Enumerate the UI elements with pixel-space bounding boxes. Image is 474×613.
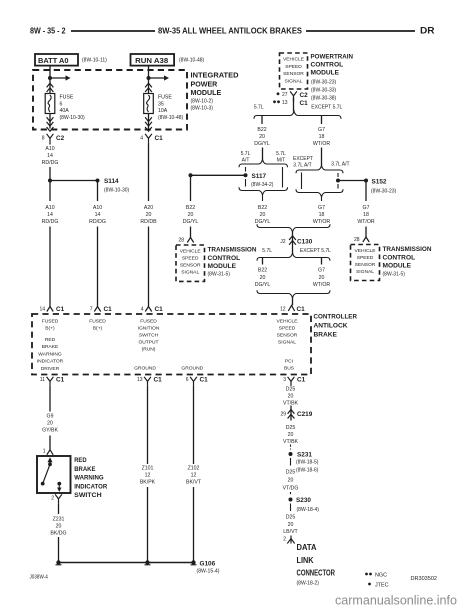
svg-text:B22: B22 (257, 127, 266, 133)
svg-text:20: 20 (188, 212, 194, 218)
svg-text:NGC: NGC (375, 572, 387, 578)
svg-text:PCI: PCI (285, 359, 293, 365)
svg-text:C1: C1 (104, 306, 113, 313)
svg-text:(RUN): (RUN) (142, 347, 156, 353)
svg-text:BATT A0: BATT A0 (38, 56, 69, 65)
svg-text:CONTROL: CONTROL (208, 255, 241, 262)
svg-text:5.7L: 5.7L (254, 105, 264, 111)
svg-text:FUSE: FUSE (60, 95, 74, 101)
svg-text:CONTROL: CONTROL (383, 254, 416, 261)
svg-text:SPEED: SPEED (285, 64, 302, 70)
svg-text:(8W-10-3): (8W-10-3) (191, 105, 214, 111)
svg-text:20: 20 (260, 275, 266, 281)
svg-text:VT/DG: VT/DG (283, 486, 299, 492)
svg-text:C1: C1 (155, 306, 164, 313)
svg-text:WT/OR: WT/OR (357, 219, 375, 225)
svg-text:A20: A20 (144, 205, 153, 211)
svg-text:6: 6 (60, 101, 63, 107)
svg-text:BK/DG: BK/DG (50, 531, 66, 537)
svg-text:14: 14 (95, 212, 101, 218)
svg-text:4: 4 (140, 136, 143, 142)
svg-text:VEHICLE: VEHICLE (355, 248, 377, 254)
svg-text:8W - 35 - 2: 8W - 35 - 2 (30, 26, 66, 36)
svg-text:RD/DG: RD/DG (42, 219, 59, 225)
svg-text:(8W-18-2): (8W-18-2) (297, 581, 320, 587)
svg-text:POWERTRAIN: POWERTRAIN (311, 54, 354, 61)
svg-text:DG/YL: DG/YL (255, 219, 271, 225)
svg-text:Z102: Z102 (188, 466, 200, 472)
svg-text:18: 18 (319, 134, 325, 140)
svg-text:20: 20 (56, 524, 62, 530)
svg-text:3.7L A/T: 3.7L A/T (293, 162, 311, 168)
svg-text:G7: G7 (318, 268, 325, 274)
svg-text:Z231: Z231 (53, 517, 65, 523)
svg-text:C1: C1 (297, 377, 306, 384)
svg-text:BUS: BUS (284, 366, 295, 372)
svg-text:FUSED: FUSED (140, 319, 157, 325)
svg-text:S230: S230 (296, 497, 311, 504)
svg-text:2: 2 (283, 537, 286, 543)
svg-text:J2: J2 (280, 239, 286, 245)
svg-text:EXCEPT 5.7L: EXCEPT 5.7L (311, 105, 342, 111)
svg-text:TRANSMISSION: TRANSMISSION (208, 246, 257, 253)
svg-text:D25: D25 (286, 515, 296, 521)
svg-text:SENSOR: SENSOR (277, 333, 298, 339)
svg-text:RED: RED (45, 337, 56, 343)
svg-text:RD/DG: RD/DG (89, 219, 106, 225)
svg-text:18: 18 (319, 212, 325, 218)
svg-text:1: 1 (43, 448, 46, 454)
svg-text:SWITCH: SWITCH (74, 492, 101, 499)
svg-text:MODULE: MODULE (311, 70, 340, 77)
svg-text:28: 28 (354, 237, 360, 243)
svg-text:DATA: DATA (297, 543, 317, 552)
svg-text:C1: C1 (56, 377, 65, 384)
svg-text:C1: C1 (300, 100, 309, 107)
svg-text:INDICATOR: INDICATOR (74, 483, 107, 490)
svg-text:C1: C1 (56, 306, 65, 313)
svg-text:G7: G7 (318, 205, 325, 211)
svg-text:D25: D25 (286, 425, 296, 431)
svg-text:SENSOR: SENSOR (283, 71, 304, 77)
svg-text:(8W-31-5): (8W-31-5) (208, 272, 231, 278)
svg-text:M/T: M/T (277, 157, 286, 163)
svg-text:D25: D25 (286, 470, 296, 476)
svg-text:MODULE: MODULE (208, 263, 237, 270)
svg-text:(8W-18-5): (8W-18-5) (296, 460, 319, 466)
svg-text:13: 13 (137, 377, 143, 383)
svg-text:C1: C1 (154, 377, 163, 384)
svg-text:B22: B22 (258, 268, 267, 274)
svg-text:4: 4 (141, 307, 144, 313)
svg-text:SWITCH: SWITCH (139, 333, 159, 339)
svg-text:EXCEPT 5.7L: EXCEPT 5.7L (300, 248, 331, 254)
svg-text:B(+): B(+) (93, 326, 103, 332)
svg-text:POWER: POWER (191, 80, 218, 88)
svg-text:18: 18 (363, 212, 369, 218)
svg-text:VEHICLE: VEHICLE (277, 319, 299, 325)
svg-text:BRAKE: BRAKE (74, 466, 96, 473)
svg-text:WT/OR: WT/OR (313, 141, 331, 147)
svg-text:13: 13 (282, 100, 288, 106)
svg-text:GROUND: GROUND (134, 366, 156, 372)
svg-text:(8W-18-6): (8W-18-6) (296, 468, 319, 474)
svg-text:14: 14 (47, 212, 53, 218)
svg-text:20: 20 (288, 522, 294, 528)
svg-text:RED: RED (74, 457, 86, 464)
svg-text:S231: S231 (297, 452, 312, 459)
svg-text:14: 14 (47, 153, 53, 159)
svg-text:(8W-30-33): (8W-30-33) (311, 87, 337, 93)
svg-text:LINK: LINK (297, 556, 314, 565)
svg-text:(8W-10-30): (8W-10-30) (60, 115, 86, 121)
svg-text:C1: C1 (297, 306, 306, 313)
svg-text:B22: B22 (258, 205, 267, 211)
svg-text:(8W-10-2): (8W-10-2) (191, 98, 214, 104)
svg-text:J038W-4: J038W-4 (30, 575, 48, 581)
svg-text:RD/DG: RD/DG (42, 160, 59, 166)
svg-text:(8W-10-30): (8W-10-30) (104, 187, 130, 193)
svg-text:GY/BK: GY/BK (42, 428, 58, 434)
svg-text:G7: G7 (318, 127, 325, 133)
svg-text:5.7L: 5.7L (276, 151, 286, 157)
svg-text:20: 20 (260, 212, 266, 218)
svg-text:JTEC: JTEC (375, 582, 389, 588)
svg-text:SIGNAL: SIGNAL (285, 78, 303, 84)
svg-text:BRAKE: BRAKE (42, 344, 59, 350)
svg-text:(8W-30-38): (8W-30-38) (311, 95, 337, 101)
svg-text:BK/PK: BK/PK (140, 480, 156, 486)
svg-text:EXCEPT: EXCEPT (293, 156, 313, 162)
svg-text:(8W-30-23): (8W-30-23) (371, 188, 397, 194)
svg-text:GROUND: GROUND (181, 366, 203, 372)
svg-text:MODULE: MODULE (383, 263, 412, 270)
svg-text:BRAKE: BRAKE (314, 332, 338, 339)
svg-text:27: 27 (282, 92, 288, 98)
svg-text:A10: A10 (45, 205, 54, 211)
svg-text:G7: G7 (363, 205, 370, 211)
svg-text:WT/OR: WT/OR (313, 219, 331, 225)
svg-text:35: 35 (158, 101, 164, 107)
svg-text:(8W-18-4): (8W-18-4) (297, 507, 320, 513)
svg-text:FUSED: FUSED (42, 319, 59, 325)
svg-text:WARNING: WARNING (74, 475, 104, 482)
svg-text:FUSED: FUSED (89, 319, 106, 325)
svg-text:IGNITION: IGNITION (138, 326, 160, 332)
svg-text:carmanualsonline.info: carmanualsonline.info (335, 594, 457, 608)
svg-text:6: 6 (186, 377, 189, 383)
svg-text:A/T: A/T (242, 157, 250, 163)
svg-text:(8W-30-23): (8W-30-23) (311, 79, 337, 85)
svg-text:SPEED: SPEED (357, 255, 374, 261)
svg-text:G9: G9 (47, 414, 54, 420)
svg-text:(8W-10-48): (8W-10-48) (158, 115, 184, 121)
svg-text:A10: A10 (93, 205, 102, 211)
svg-text:G106: G106 (200, 561, 216, 568)
svg-text:SIGNAL: SIGNAL (356, 269, 374, 275)
svg-text:SENSOR: SENSOR (355, 262, 376, 268)
svg-text:MODULE: MODULE (191, 89, 222, 97)
svg-text:INDICATOR: INDICATOR (37, 359, 64, 365)
svg-text:CONTROL: CONTROL (311, 62, 344, 69)
svg-text:LB/VT: LB/VT (283, 529, 298, 535)
svg-text:12: 12 (280, 307, 286, 313)
svg-text:BK/VT: BK/VT (186, 480, 202, 486)
svg-text:S114: S114 (104, 178, 119, 185)
svg-text:ANTILOCK: ANTILOCK (314, 323, 348, 330)
svg-text:2: 2 (51, 496, 54, 502)
svg-text:VT/BK: VT/BK (283, 439, 299, 445)
svg-text:20: 20 (259, 134, 265, 140)
svg-text:20: 20 (288, 394, 294, 400)
svg-text:OUTPUT: OUTPUT (138, 340, 158, 346)
svg-text:INTEGRATED: INTEGRATED (191, 72, 239, 80)
svg-text:40A: 40A (60, 108, 70, 114)
svg-text:SIGNAL: SIGNAL (278, 340, 296, 346)
svg-text:20: 20 (319, 275, 325, 281)
svg-text:RUN A38: RUN A38 (135, 56, 168, 65)
svg-text:S117: S117 (252, 173, 267, 180)
svg-text:12: 12 (191, 473, 197, 479)
svg-text:CONNECTOR: CONNECTOR (297, 569, 336, 578)
svg-text:(8W-10-11): (8W-10-11) (82, 58, 107, 64)
svg-text:TRANSMISSION: TRANSMISSION (383, 246, 432, 253)
svg-text:C219: C219 (297, 411, 313, 418)
svg-text:SENSOR: SENSOR (180, 263, 201, 269)
svg-text:Z101: Z101 (142, 466, 154, 472)
svg-text:SIGNAL: SIGNAL (181, 270, 199, 276)
svg-text:DG/YL: DG/YL (254, 141, 270, 147)
svg-text:DR: DR (420, 26, 435, 36)
svg-text:20: 20 (288, 478, 294, 484)
svg-text:B(+): B(+) (45, 326, 55, 332)
svg-text:3.7L A/T: 3.7L A/T (331, 161, 349, 167)
svg-text:28: 28 (178, 238, 184, 244)
svg-text:10A: 10A (158, 108, 168, 114)
svg-text:5.7L: 5.7L (241, 151, 251, 157)
svg-text:(8W-31-5): (8W-31-5) (383, 271, 406, 277)
svg-text:8W-35 ALL WHEEL ANTILOCK BRAKE: 8W-35 ALL WHEEL ANTILOCK BRAKES (158, 26, 302, 36)
svg-text:B22: B22 (186, 205, 195, 211)
svg-text:11: 11 (40, 377, 45, 383)
svg-text:5.7L: 5.7L (262, 248, 272, 254)
svg-text:20: 20 (146, 212, 152, 218)
svg-text:CONTROLLER: CONTROLLER (314, 314, 358, 321)
svg-text:3: 3 (283, 377, 286, 383)
svg-text:DG/YL: DG/YL (255, 282, 271, 288)
svg-text:D25: D25 (286, 387, 296, 393)
svg-text:29: 29 (280, 412, 286, 418)
svg-text:8: 8 (42, 136, 45, 142)
svg-text:7: 7 (90, 307, 93, 313)
svg-text:WT/OR: WT/OR (313, 282, 331, 288)
svg-text:VEHICLE: VEHICLE (283, 57, 305, 63)
svg-text:DRIVER: DRIVER (41, 366, 60, 372)
svg-text:12: 12 (145, 473, 151, 479)
svg-text:RD/DB: RD/DB (140, 219, 157, 225)
svg-text:A10: A10 (45, 146, 54, 152)
svg-text:20: 20 (288, 432, 294, 438)
svg-text:(8W-15-4): (8W-15-4) (197, 569, 220, 575)
svg-text:C1: C1 (155, 135, 164, 142)
svg-text:DR303502: DR303502 (411, 576, 438, 582)
svg-text:FUSE: FUSE (158, 95, 172, 101)
svg-text:C2: C2 (300, 92, 309, 99)
svg-text:SPEED: SPEED (182, 256, 199, 262)
svg-text:DG/YL: DG/YL (183, 219, 199, 225)
svg-text:VEHICLE: VEHICLE (180, 249, 202, 255)
svg-text:C2: C2 (56, 135, 65, 142)
svg-text:(8W-34-2): (8W-34-2) (251, 182, 274, 188)
svg-text:C1: C1 (200, 377, 209, 384)
svg-text:WARNING: WARNING (38, 351, 62, 357)
svg-text:C130: C130 (297, 238, 313, 245)
svg-text:SPEED: SPEED (279, 326, 296, 332)
svg-text:20: 20 (47, 421, 53, 427)
svg-text:(8W-10-48): (8W-10-48) (179, 58, 205, 64)
svg-text:S152: S152 (372, 178, 387, 185)
svg-text:14: 14 (39, 307, 45, 313)
